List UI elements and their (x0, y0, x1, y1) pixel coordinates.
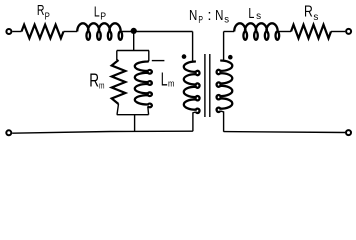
svg-text:s: s (313, 11, 318, 23)
wire: junction down to parallel R_m/L_m top bar (133, 31, 135, 51)
wire: L_m to bottom bar (147, 106, 150, 114)
wire: top bar to R_m (116, 51, 118, 61)
svg-text:R: R (37, 2, 45, 19)
svg-text:P: P (198, 14, 203, 26)
wire: R_S to top-right terminal (331, 31, 345, 33)
wire: secondary winding top (220, 32, 223, 61)
svg-text:R: R (89, 71, 99, 91)
wire: secondary winding to bottom rail (220, 111, 223, 132)
wire: top bar of parallel branch (117, 50, 149, 52)
wire: primary winding to bottom rail (193, 112, 196, 131)
resistor R_S (291, 25, 331, 39)
wire: secondary top corner to L_S (224, 31, 235, 33)
wire: top-left terminal to R_P (12, 31, 21, 33)
svg-text:s: s (224, 13, 229, 25)
transformer core line 1 (204, 54, 206, 117)
wire: top bar to L_m (148, 51, 150, 62)
terminal: secondary output bottom (346, 130, 351, 135)
svg-text:N: N (215, 7, 223, 24)
wire: R_m to bottom bar (117, 104, 119, 115)
wire: top rail down to primary winding (193, 32, 196, 62)
wire: bottom rail primary side (12, 131, 193, 133)
svg-text::: : (207, 7, 211, 24)
inductor L_P (77, 23, 122, 40)
svg-text:s: s (256, 10, 261, 22)
svg-text:m: m (99, 80, 105, 90)
wire: bottom bar down to bottom rail (134, 115, 136, 132)
svg-text:N: N (189, 7, 197, 24)
svg-text:L: L (94, 3, 100, 20)
svg-text:L: L (161, 69, 168, 89)
svg-text:P: P (100, 11, 106, 23)
polarity dot: secondary (228, 55, 233, 60)
wire: R_P to L_P (64, 31, 78, 33)
resistor R_m (112, 60, 126, 104)
transformer primary winding (184, 62, 200, 114)
wire: L_S to R_S (277, 31, 291, 33)
terminal: primary input bottom (6, 130, 11, 135)
svg-text:R: R (304, 4, 313, 21)
wire: bottom bar of parallel branch (117, 114, 149, 116)
wire: small stub at top of L_m (152, 60, 165, 62)
inductor L_m (135, 61, 152, 107)
svg-text:L: L (248, 5, 254, 22)
svg-text:P: P (45, 11, 50, 23)
wire: bottom rail secondary side (224, 131, 346, 134)
node: junction of magnetizing branch with top rail (131, 28, 137, 34)
polarity dot: primary (182, 54, 187, 59)
transformer core line 2 (209, 54, 211, 117)
resistor R_P (22, 25, 64, 39)
terminal: primary input top (6, 29, 11, 34)
transformer secondary winding (217, 61, 233, 113)
terminal: secondary output top (346, 29, 351, 34)
svg-text:m: m (168, 79, 174, 89)
inductor L_S (234, 23, 279, 40)
wire: L_P to primary of ideal transformer (through node) (120, 31, 193, 33)
